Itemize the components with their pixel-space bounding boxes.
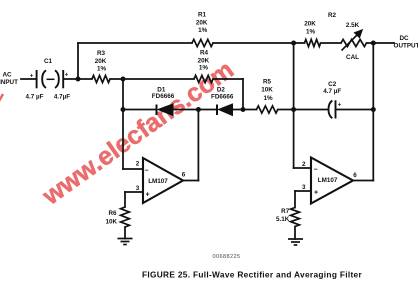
svg-text:−: − — [313, 167, 317, 174]
svg-text:AC: AC — [2, 72, 12, 79]
svg-text:4.7µF: 4.7µF — [54, 94, 70, 101]
svg-text:FD6666: FD6666 — [211, 94, 234, 101]
svg-text:20K: 20K — [95, 58, 107, 65]
svg-text:2: 2 — [136, 160, 140, 167]
svg-text:+: + — [65, 73, 69, 79]
svg-text:2.5K: 2.5K — [346, 22, 360, 29]
svg-text:R3: R3 — [97, 50, 106, 57]
svg-text:2: 2 — [302, 161, 306, 168]
svg-text:00688225: 00688225 — [212, 254, 240, 260]
svg-text:DC: DC — [399, 35, 409, 42]
svg-text:R4: R4 — [200, 50, 209, 57]
svg-text:1%: 1% — [263, 95, 273, 102]
svg-text:10K: 10K — [106, 219, 118, 226]
svg-text:LM107: LM107 — [148, 178, 168, 185]
svg-text:FD6666: FD6666 — [152, 93, 175, 100]
svg-text:1%: 1% — [199, 65, 209, 72]
svg-text:INPUT: INPUT — [0, 79, 18, 86]
svg-text:CAL: CAL — [346, 54, 359, 61]
svg-text:C1: C1 — [44, 58, 53, 65]
svg-text:LM107: LM107 — [318, 177, 338, 184]
svg-text:R1: R1 — [198, 12, 207, 19]
svg-text:D2: D2 — [217, 87, 226, 94]
svg-text:10K: 10K — [261, 87, 273, 94]
svg-text:4.7 µF: 4.7 µF — [26, 94, 44, 101]
svg-text:4.7 µF: 4.7 µF — [323, 88, 341, 95]
svg-text:OUTPUT: OUTPUT — [394, 43, 418, 50]
svg-text:+: + — [338, 103, 342, 109]
svg-text:R5: R5 — [263, 79, 272, 86]
svg-text:1%: 1% — [97, 66, 107, 73]
svg-text:3: 3 — [136, 185, 140, 192]
svg-text:R7: R7 — [281, 208, 290, 215]
svg-text:20K: 20K — [196, 20, 208, 27]
svg-text:FIGURE 25. Full-Wave Rectifier: FIGURE 25. Full-Wave Rectifier and Avera… — [142, 270, 363, 280]
svg-text:5.1K: 5.1K — [276, 216, 290, 223]
svg-text:C2: C2 — [328, 81, 337, 88]
svg-text:20K: 20K — [304, 21, 316, 28]
svg-text:R2: R2 — [328, 12, 337, 19]
svg-text:6: 6 — [182, 172, 186, 179]
svg-text:20K: 20K — [198, 58, 210, 65]
svg-text:1%: 1% — [306, 29, 316, 36]
svg-text:+: + — [314, 190, 318, 197]
svg-text:R6: R6 — [108, 210, 117, 217]
svg-text:1%: 1% — [198, 27, 208, 34]
svg-text:−: − — [144, 168, 148, 175]
svg-text:3: 3 — [302, 184, 306, 191]
svg-text:6: 6 — [353, 172, 357, 179]
svg-text:+: + — [30, 74, 34, 80]
svg-text:+: + — [145, 192, 149, 199]
